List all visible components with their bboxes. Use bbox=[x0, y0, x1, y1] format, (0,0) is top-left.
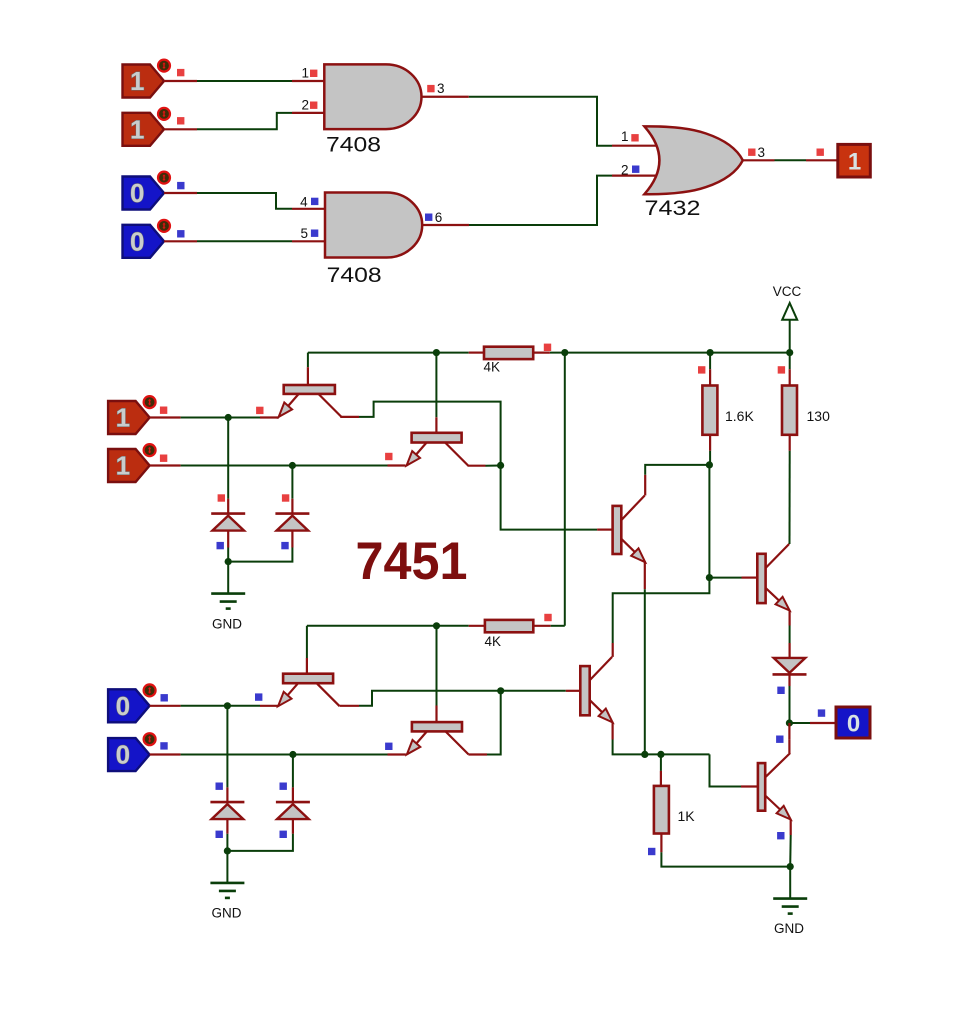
svg-text:2: 2 bbox=[301, 97, 309, 112]
transistor Q4 bbox=[407, 722, 469, 754]
svg-text:5: 5 bbox=[300, 226, 308, 241]
resistor R5 1K bbox=[654, 786, 669, 834]
resistor R2 1.6K bbox=[702, 386, 717, 435]
logic input box C value 0 bbox=[108, 684, 156, 722]
svg-text:0: 0 bbox=[847, 711, 860, 738]
wire bbox=[226, 706, 228, 802]
wire output bbox=[789, 722, 836, 724]
label 1.6K R2 bbox=[725, 408, 754, 424]
node square Q3 emitter bbox=[255, 693, 262, 700]
wire bbox=[709, 353, 711, 386]
svg-text:1: 1 bbox=[130, 114, 144, 144]
svg-text:1: 1 bbox=[116, 451, 130, 481]
pin 1 label U3 bbox=[621, 129, 629, 144]
transistor Q8 bbox=[758, 753, 791, 820]
wire Q3 collector bbox=[340, 691, 501, 706]
junction bbox=[497, 462, 504, 469]
label 7432 U3 bbox=[645, 196, 701, 220]
node indicator square IN2 bbox=[177, 117, 184, 124]
node square D1 anode bbox=[218, 494, 225, 501]
wire bbox=[227, 418, 229, 514]
logic output box OUT2 value 0 bbox=[836, 707, 870, 738]
wire Q4 collector bbox=[468, 691, 500, 755]
junction bbox=[707, 349, 714, 356]
wire bbox=[469, 352, 550, 354]
wire bbox=[422, 176, 661, 225]
wire lower rail bbox=[307, 625, 469, 627]
pin 1 state square bbox=[310, 70, 317, 77]
svg-text:4K: 4K bbox=[484, 360, 501, 375]
VCC power symbol bbox=[782, 303, 797, 353]
node square 1K bottom bbox=[648, 848, 655, 855]
pin 1 state square U3 bbox=[631, 134, 638, 141]
wire input A bbox=[150, 416, 279, 418]
wire bbox=[228, 530, 292, 561]
junction bbox=[224, 702, 231, 709]
logic output box OUT value 1 bbox=[838, 144, 871, 177]
diode D3 bbox=[210, 802, 244, 819]
wire bbox=[788, 674, 790, 723]
wire bbox=[164, 193, 325, 209]
transistor Q5 bbox=[613, 496, 646, 563]
node indicator square IN4 bbox=[177, 230, 184, 237]
node square D1 cathode bbox=[217, 542, 224, 549]
svg-text:1K: 1K bbox=[678, 808, 696, 824]
node square bbox=[698, 366, 705, 373]
label GND3 bbox=[774, 921, 804, 936]
wire bbox=[226, 819, 228, 851]
node indicator square D bbox=[160, 742, 167, 749]
node square D3 cathode bbox=[216, 831, 223, 838]
node square Q8 collector bbox=[776, 736, 783, 743]
output node square bbox=[817, 149, 824, 156]
wire Q5 base bbox=[501, 465, 613, 529]
node indicator square C bbox=[161, 694, 168, 701]
node square D4 cathode bbox=[280, 831, 287, 838]
diode D4 bbox=[276, 802, 310, 819]
pin 2 label U3 bbox=[621, 163, 629, 178]
wire bbox=[227, 819, 293, 851]
node indicator square A bbox=[160, 407, 167, 414]
node square D2 anode bbox=[282, 494, 289, 501]
svg-text:7408: 7408 bbox=[327, 263, 382, 287]
svg-text:1: 1 bbox=[116, 403, 130, 433]
logic input box B value 1 bbox=[108, 444, 156, 482]
label 7451 bbox=[356, 532, 468, 591]
label 7408 U2 bbox=[327, 263, 382, 287]
pin 3 state square bbox=[427, 85, 434, 92]
junction bbox=[289, 751, 296, 758]
ground GND2 bbox=[210, 851, 244, 898]
svg-text:0: 0 bbox=[130, 178, 144, 208]
wire emitter rail bbox=[645, 754, 741, 786]
VCC label bbox=[773, 284, 802, 299]
label GND1 bbox=[212, 617, 242, 632]
wire input D bbox=[150, 753, 406, 755]
node square D2 cathode bbox=[281, 542, 288, 549]
pin 1 label bbox=[301, 66, 309, 81]
junction bbox=[561, 349, 568, 356]
svg-text:4: 4 bbox=[300, 195, 308, 210]
wire Q7 emitter bbox=[788, 611, 790, 658]
wire bbox=[660, 754, 662, 786]
OR gate U3 7432 bbox=[644, 126, 742, 194]
junction bbox=[497, 687, 504, 694]
junction output node bbox=[786, 719, 793, 726]
svg-text:2: 2 bbox=[621, 163, 629, 178]
wire bbox=[227, 530, 229, 561]
wire Q2 collector bbox=[468, 464, 501, 466]
wire Q8 base bbox=[741, 785, 758, 787]
resistor R4 4K bbox=[485, 620, 533, 632]
wire bbox=[789, 353, 791, 386]
wire bbox=[164, 113, 324, 129]
svg-text:1: 1 bbox=[301, 66, 309, 81]
pin 6 state square bbox=[425, 214, 432, 221]
wire bbox=[564, 353, 566, 626]
svg-text:GND: GND bbox=[212, 906, 242, 921]
pin 2 label bbox=[301, 97, 309, 112]
transistor Q6 bbox=[580, 657, 612, 723]
wire bbox=[743, 159, 838, 161]
logic input box D value 0 bbox=[108, 733, 156, 771]
label GND2 bbox=[212, 906, 242, 921]
wire bbox=[164, 80, 324, 82]
wire bbox=[291, 466, 293, 514]
junction bbox=[433, 622, 440, 629]
svg-text:0: 0 bbox=[116, 740, 130, 770]
wire bbox=[708, 465, 710, 578]
node square bbox=[544, 614, 551, 621]
AND gate U2 7408 bbox=[325, 193, 422, 258]
wire input B bbox=[150, 464, 406, 466]
svg-text:1: 1 bbox=[621, 129, 629, 144]
wire bbox=[788, 435, 790, 544]
wire Q8 collector bbox=[788, 739, 790, 753]
svg-text:6: 6 bbox=[435, 210, 443, 225]
junction bbox=[787, 863, 794, 870]
wire Q3 base bbox=[306, 626, 308, 674]
diode D2 bbox=[275, 514, 309, 531]
label 7408 U1 bbox=[326, 133, 381, 157]
junction bbox=[641, 751, 648, 758]
wire Q4 base bbox=[436, 626, 438, 722]
wire bbox=[788, 723, 790, 739]
node indicator square B bbox=[160, 455, 167, 462]
label 130 R3 bbox=[807, 408, 831, 424]
svg-text:0: 0 bbox=[116, 691, 130, 721]
junction bbox=[706, 574, 713, 581]
node square Q2 emitter bbox=[385, 453, 392, 460]
ground GND1 bbox=[211, 562, 245, 609]
pin 6 label bbox=[435, 210, 443, 225]
node square Q8 emitter bbox=[777, 832, 784, 839]
pin 2 state square U3 bbox=[632, 166, 639, 173]
wire Q1 collector bbox=[340, 402, 500, 466]
junction bbox=[706, 461, 713, 468]
wire bbox=[661, 834, 790, 867]
wire Q1 base bbox=[307, 353, 309, 385]
junction bbox=[225, 558, 232, 565]
pin 5 state square bbox=[311, 230, 318, 237]
pin 3 state square U3 bbox=[748, 149, 755, 156]
svg-text:VCC: VCC bbox=[773, 284, 802, 299]
wire bbox=[164, 240, 325, 242]
node square Q1 emitter bbox=[256, 407, 263, 414]
wire Q6 emitter bbox=[613, 722, 645, 754]
wire VCC rail bbox=[308, 352, 790, 354]
logic input box IN4 value 0 bbox=[123, 220, 171, 258]
transistor Q7 bbox=[757, 544, 789, 611]
svg-text:1: 1 bbox=[848, 149, 861, 176]
logic input box IN2 value 1 bbox=[123, 108, 171, 146]
node indicator square IN1 bbox=[177, 69, 184, 76]
svg-text:4K: 4K bbox=[485, 634, 502, 649]
AND gate U1 7408 bbox=[324, 64, 421, 129]
junction bbox=[224, 847, 231, 854]
wire Q5 collector bbox=[645, 465, 709, 496]
label 4K R4 bbox=[485, 634, 502, 649]
svg-text:7432: 7432 bbox=[645, 196, 701, 220]
label 4K R1 bbox=[484, 360, 501, 375]
wire Q5 emitter bbox=[644, 562, 646, 754]
wire bbox=[469, 625, 551, 627]
svg-text:0: 0 bbox=[130, 226, 144, 256]
wire bbox=[292, 755, 294, 803]
svg-text:3: 3 bbox=[437, 81, 445, 96]
svg-text:GND: GND bbox=[774, 921, 804, 936]
junction bbox=[225, 414, 232, 421]
resistor R1 4K bbox=[484, 347, 533, 359]
wire Q2 base bbox=[435, 353, 437, 433]
ground GND3 bbox=[773, 867, 807, 914]
junction bbox=[657, 751, 664, 758]
resistor R3 130 bbox=[782, 386, 797, 435]
transistor Q3 bbox=[278, 674, 340, 707]
pin 3 label U3 bbox=[758, 145, 766, 160]
pin 2 state square bbox=[310, 102, 317, 109]
label 1K R5 bbox=[678, 808, 696, 824]
logic input box IN3 value 0 bbox=[123, 172, 171, 210]
node indicator square IN3 bbox=[177, 182, 184, 189]
svg-text:GND: GND bbox=[212, 617, 242, 632]
wire input C bbox=[150, 705, 279, 707]
svg-text:7408: 7408 bbox=[326, 133, 381, 157]
pin 4 label bbox=[300, 195, 308, 210]
wire Q6 base bbox=[501, 690, 581, 692]
wire Q7 base bbox=[709, 577, 757, 579]
node square output wire bbox=[818, 709, 825, 716]
svg-text:7451: 7451 bbox=[356, 532, 468, 591]
pin 4 state square bbox=[311, 198, 318, 205]
wire bbox=[613, 578, 710, 657]
svg-text:3: 3 bbox=[758, 145, 766, 160]
junction bbox=[433, 349, 440, 356]
svg-text:1.6K: 1.6K bbox=[725, 408, 754, 424]
transistor Q2 bbox=[407, 433, 469, 466]
logic input box A value 1 bbox=[108, 396, 156, 434]
wire bbox=[709, 435, 711, 465]
junction bbox=[786, 349, 793, 356]
diode D5 bbox=[773, 658, 807, 675]
node square Q4 emitter bbox=[385, 743, 392, 750]
pin 3 label bbox=[437, 81, 445, 96]
pin 5 label bbox=[300, 226, 308, 241]
wire bbox=[422, 97, 662, 146]
node square bbox=[778, 366, 785, 373]
svg-text:1: 1 bbox=[130, 66, 144, 96]
diode D1 bbox=[211, 514, 245, 531]
junction bbox=[289, 462, 296, 469]
node square D5 cathode bbox=[777, 687, 784, 694]
node square D3 anode bbox=[216, 783, 223, 790]
node square bbox=[544, 344, 551, 351]
wire bbox=[551, 625, 565, 627]
wire Q8 emitter bbox=[789, 820, 792, 867]
logic input box IN1 value 1 bbox=[123, 60, 171, 98]
transistor Q1 bbox=[279, 385, 342, 417]
node square D4 anode bbox=[280, 783, 287, 790]
svg-text:130: 130 bbox=[807, 408, 831, 424]
